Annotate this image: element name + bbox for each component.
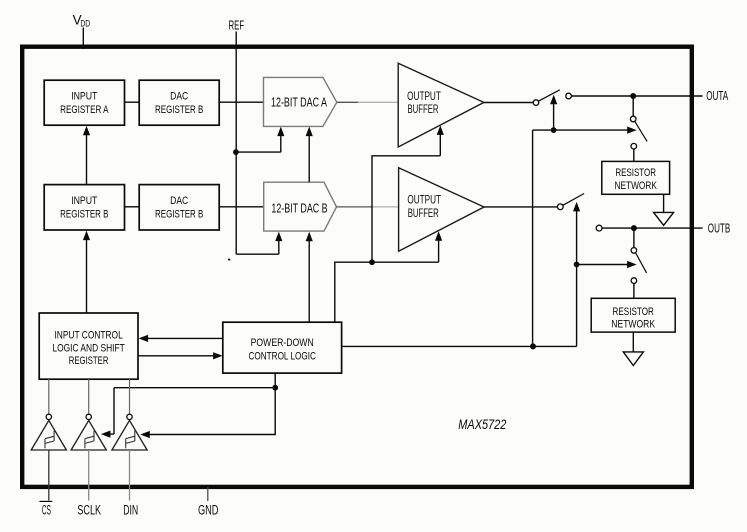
switch A lever [538,90,559,101]
switch A rail contact [566,93,572,99]
wire feedback to SCLK buffer [108,388,275,434]
input buffer (DIN) [112,420,147,450]
wire OUTA rail [571,95,702,97]
dac register B (channel A row) [139,80,219,125]
wire dac reg to DAC A [219,101,263,103]
svg-text:LOGIC AND SHIFT: LOGIC AND SHIFT [52,342,125,354]
input register B [44,185,124,230]
wire register B to register A data path [86,132,88,184]
wire shift register to register B data path [86,237,88,313]
wire power-down to buffer enables [335,237,439,322]
wire GND stub [207,487,209,501]
node feedback junction [272,385,278,391]
svg-text:INPUT: INPUT [71,91,97,103]
wire input control to CS buffer [48,379,50,414]
svg-text:MAX5722: MAX5722 [458,417,506,432]
wire input control to power-down [138,355,216,357]
svg-text:DD: DD [80,18,90,29]
wire switch to resistor network B [633,283,635,298]
node switch B control junction [574,262,580,268]
resistor switch A top contact [630,116,636,122]
node OUTB junction [631,225,637,231]
svg-text:BUFFER: BUFFER [408,206,439,220]
wire power-down to DAC B [308,238,310,322]
wire arrow to resistor switch B [577,264,628,266]
svg-text:INPUT: INPUT [71,195,97,207]
wire OUTB to resistor switch [633,228,635,248]
switch B rail contact [596,225,602,231]
wire resistor network B to ground [632,332,634,352]
wire REF vertical net [235,32,237,255]
svg-text:NETWORK: NETWORK [611,318,655,330]
12-bit DAC B [264,182,337,231]
svg-text:POWER-DOWN: POWER-DOWN [251,337,314,349]
svg-text:CS: CS [42,502,51,518]
resistor network B [591,298,675,332]
svg-text:REGISTER B: REGISTER B [60,209,108,221]
input control logic and shift register [39,313,138,379]
svg-text:REGISTER: REGISTER [69,355,109,367]
pin CS (active low) [39,501,52,518]
DIN buffer inversion circle [127,414,132,419]
node power-down rail junction [530,343,536,349]
resistor switch B top contact [631,248,637,254]
wire input control to DIN buffer [129,379,131,414]
svg-text:DAC: DAC [170,91,188,103]
SCLK buffer inversion circle [86,414,91,419]
wire OUTA to resistor switch [632,96,634,116]
svg-text:DIN: DIN [123,502,138,518]
wire arrow to switch A lever [553,103,555,130]
input buffer (SCLK) [71,420,106,450]
svg-text:RESISTOR: RESISTOR [615,167,656,179]
node switch A control junction [551,127,557,133]
svg-text:RESISTOR: RESISTOR [613,306,655,318]
resistor network A [602,161,670,194]
wire VDD stub [82,28,84,49]
svg-text:INPUT CONTROL: INPUT CONTROL [54,330,122,342]
wire DAC A to output buffer A [337,101,358,103]
input register A [44,80,124,125]
svg-text:SCLK: SCLK [77,502,101,518]
svg-text:REGISTER B: REGISTER B [155,209,203,221]
switch B output contact [557,204,563,210]
svg-text:12-BIT DAC A: 12-BIT DAC A [271,95,327,110]
wire dac reg to DAC B [219,206,263,208]
12-bit DAC A [264,77,337,126]
wire input reg B to dac reg [125,206,140,208]
svg-text:DAC: DAC [170,195,188,207]
resistor switch A lever [635,122,647,142]
wire enable to buffer A [372,131,440,262]
wire SCLK pin stub [88,450,90,501]
svg-text:OUTB: OUTB [708,221,730,235]
wire power-down to DAC A [308,133,310,182]
svg-text:REGISTER B: REGISTER B [155,104,203,116]
wire DIN pin stub [129,450,131,501]
wire CS pin stub [48,450,50,501]
node OUTA junction [630,93,636,99]
chip case border [22,47,692,487]
switch A output contact [533,100,539,106]
svg-text:12-BIT DAC B: 12-BIT DAC B [271,200,327,215]
pin VDD [73,13,91,30]
svg-text:REF: REF [229,18,245,32]
wire DAC B to output buffer B [337,206,373,208]
svg-text:REGISTER A: REGISTER A [60,104,109,116]
node REF junction [233,149,239,155]
svg-text:OUTPUT: OUTPUT [407,193,441,207]
wire switch A control [533,129,628,131]
svg-text:BUFFER: BUFFER [408,102,439,116]
wire power-down feedback to DIN buffer [147,373,276,434]
CS buffer inversion circle [46,414,51,419]
dac register B (channel B row) [139,185,219,230]
ground (channel A) [654,212,674,225]
svg-text:OUTPUT: OUTPUT [407,89,441,103]
wire buffer A output to switch [484,102,533,104]
wire input reg A to dac reg [125,101,140,103]
wire switch to resistor network A [633,149,635,161]
wire REF branch to DAC A [236,133,281,152]
wire input control to SCLK buffer [88,379,90,414]
op-amp output buffer B [399,168,484,251]
op-amp output buffer A [398,63,484,147]
wire resistor network A to ground [663,194,665,212]
input buffer (CS) [31,420,66,450]
power-down control logic [223,322,342,373]
wire control B riser [576,210,578,346]
svg-text:OUTA: OUTA [706,89,728,103]
svg-text:GND: GND [198,502,219,518]
wire REF branch to DAC B [236,238,279,254]
wire buffer B output to switch [484,206,558,208]
wire OUTB rail [602,227,703,229]
switch B lever [563,194,584,206]
svg-text:CONTROL LOGIC: CONTROL LOGIC [249,351,317,363]
resistor switch B lever [636,253,647,273]
wire power-down rail [342,345,577,347]
resistor switch B bottom contact [631,278,637,284]
svg-text:NETWORK: NETWORK [615,180,657,192]
stray mark [228,259,230,261]
wire control A down to power-down rail [532,130,534,346]
ground (channel B) [623,352,643,366]
node buffer enable junction [369,259,375,265]
resistor switch A bottom contact [631,143,637,149]
wire power-down to input control [145,337,223,339]
